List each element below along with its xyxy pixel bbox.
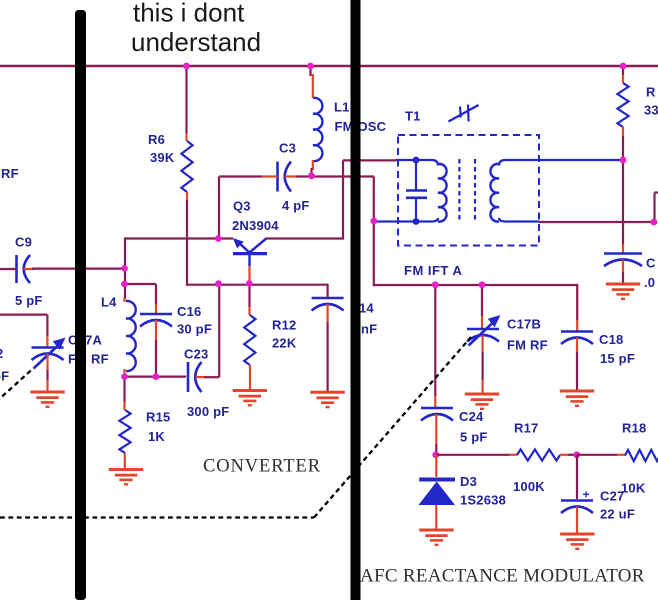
svg-text:C9: C9 [15,235,32,250]
svg-text:L1: L1 [334,100,350,115]
svg-text:D3: D3 [460,474,477,489]
svg-text:R: R [646,85,656,100]
capacitor C18 [561,330,593,333]
ground under C18 [560,390,594,393]
svg-text:T1: T1 [405,109,421,124]
svg-text:.0: .0 [644,275,655,290]
svg-text:R15: R15 [146,410,170,425]
junction T1 primary bottom node [370,218,377,225]
ground under C14 [310,391,344,394]
wire R33 node down to C bypass [622,160,624,244]
capacitor C24 [421,407,453,410]
svg-text:C17B: C17B [507,317,541,332]
svg-text:pF: pF [0,369,9,384]
svg-text:R12: R12 [272,318,296,333]
ground under C17A [30,391,64,394]
wire L1 bottom [312,160,314,170]
wire C18 drop [576,285,578,320]
junction base rail/C23 [215,280,222,287]
wire R6 bottom to base rail [186,192,188,200]
T1 internal capacitor [406,189,427,192]
svg-text:R17: R17 [514,421,538,436]
svg-text:5 pF: 5 pF [460,430,488,445]
svg-text:33: 33 [644,103,658,118]
wire R6 top drop [185,66,187,133]
wire C3 right to L1 node [285,175,298,177]
svg-text:CONVERTER: CONVERTER [203,457,321,477]
node C24/D3/R17 [432,451,439,458]
svg-text:C16: C16 [177,304,201,319]
dashed gang link diagonal to C17B [314,337,471,518]
svg-text:understand: understand [131,27,261,57]
capacitor C16 [140,313,172,316]
wire C9 to tank node [32,268,125,270]
wire node to R18 [577,454,617,456]
wire tank bottom row [125,376,187,378]
svg-text:5 pF: 5 pF [15,293,43,308]
resistor R33 at right edge [622,66,624,75]
svg-text:FM OSC: FM OSC [335,119,387,134]
wire FM IFT A rail [374,284,578,286]
junction C3/L1 node [308,172,315,179]
resistor R17 [517,449,560,460]
diode D3 [435,455,437,477]
wire C14 branch from base rail [327,285,329,298]
marker line 2 [351,0,361,600]
svg-text:R18: R18 [622,421,646,436]
svg-text:1K: 1K [148,429,165,444]
capacitor C14 [312,297,344,300]
junction base/R12 node [246,280,253,287]
wire T1 secondary top to R33 node [505,159,621,161]
svg-text:FM IFT A: FM IFT A [404,263,463,278]
node R17/C27/R18 [573,451,580,458]
ground under right bypass capacitor [606,283,640,286]
junction rail/L1 [307,63,314,70]
junction tank/C16 node [121,281,128,288]
svg-text:10K: 10K [621,481,646,496]
dashed gang link bottom [0,516,314,518]
capacitor C3 [276,162,279,192]
inductor L1 [313,98,322,161]
ground under D3 [419,529,453,532]
junction emitter/C3 node [215,235,222,242]
junction rail/R6 [183,63,190,70]
svg-text:nF: nF [361,322,377,337]
svg-text:C23: C23 [184,347,208,362]
junction rail/R33 [620,63,627,70]
svg-text:L4: L4 [101,295,117,310]
svg-text:this i dont: this i dont [133,0,245,28]
wire collector to T1 primary top [266,237,344,239]
junction R33/secondary node [620,157,627,164]
wire emitter-left corner down to tank node [124,237,126,299]
dashed gang link to C17A [0,369,33,403]
svg-text:R6: R6 [148,132,165,147]
junction IFT/C17B node [479,281,486,288]
wire B+ top rail [0,65,658,67]
resistor R15 [123,377,125,402]
wire base rail [187,284,329,286]
svg-text:4 pF: 4 pF [282,198,310,213]
svg-text:2N3904: 2N3904 [232,218,279,233]
junction IFT/C24 node [432,281,439,288]
ground under C17B [465,393,499,396]
svg-text:39K: 39K [150,150,175,165]
junction C9/tank node [121,265,128,272]
wire T1 primary bottom to FM IFT node [376,220,416,222]
wire C23 right up to base rail [196,376,207,378]
svg-text:Q3: Q3 [233,199,251,214]
capacitor C27 electrolytic [576,455,578,499]
capacitor C bypass right [604,252,642,255]
ground under C27 [560,533,594,536]
svg-text:AFC REACTANCE MODULATOR: AFC REACTANCE MODULATOR [360,566,645,587]
ground under R15 [109,468,143,471]
T1 primary coil [416,160,438,166]
junction L4/R15 node [121,373,128,380]
junction C16 bottom node [152,373,159,380]
T1 core [458,159,460,222]
transformer T1 dashed box [398,135,539,246]
capacitor C23 [187,362,190,392]
wire C3 left to emitter node [262,175,278,177]
T1 secondary coil [499,160,506,166]
svg-text:30 pF: 30 pF [177,322,212,337]
svg-text:C3: C3 [279,141,296,156]
wire L1 node down to T1 primary bottom [373,177,375,287]
wire C16 branch [125,283,157,285]
resistor R12 [248,284,250,307]
svg-text:1S2638: 1S2638 [460,493,506,508]
svg-text:C18: C18 [599,332,623,347]
svg-text:14: 14 [359,301,374,316]
svg-text:2: 2 [0,346,3,361]
svg-text:C27: C27 [600,489,624,504]
svg-text:300 pF: 300 pF [187,404,229,419]
svg-text:100K: 100K [513,479,545,494]
svg-text:C: C [646,256,656,271]
wire C14 bottom to ground [327,304,329,322]
wire drop to C17B [481,285,483,316]
wire emitter row [125,237,233,239]
wire node to R17 [436,454,509,456]
wire L1 top drop [309,66,311,76]
svg-text:22K: 22K [272,336,297,351]
wire C16 bottom [155,320,157,340]
capacitor C17B FM RF (variable) [467,328,499,331]
svg-text:15 pF: 15 pF [600,351,635,366]
svg-text:RF: RF [1,166,19,181]
resistor R18 [625,450,658,461]
wire drop to C24 [434,285,436,396]
wire T1 secondary bottom to right edge [505,220,539,222]
svg-text:22 uF: 22 uF [600,507,635,522]
resistor R6 [181,141,192,192]
T1 junction dots [413,157,420,164]
T1 tuning slug symbol [449,105,479,122]
svg-text:FM RF: FM RF [507,338,548,353]
ground under R12 [233,389,267,392]
svg-text:FM RF: FM RF [68,352,109,367]
marker line 1 [75,10,86,600]
svg-text:C24: C24 [459,409,484,424]
